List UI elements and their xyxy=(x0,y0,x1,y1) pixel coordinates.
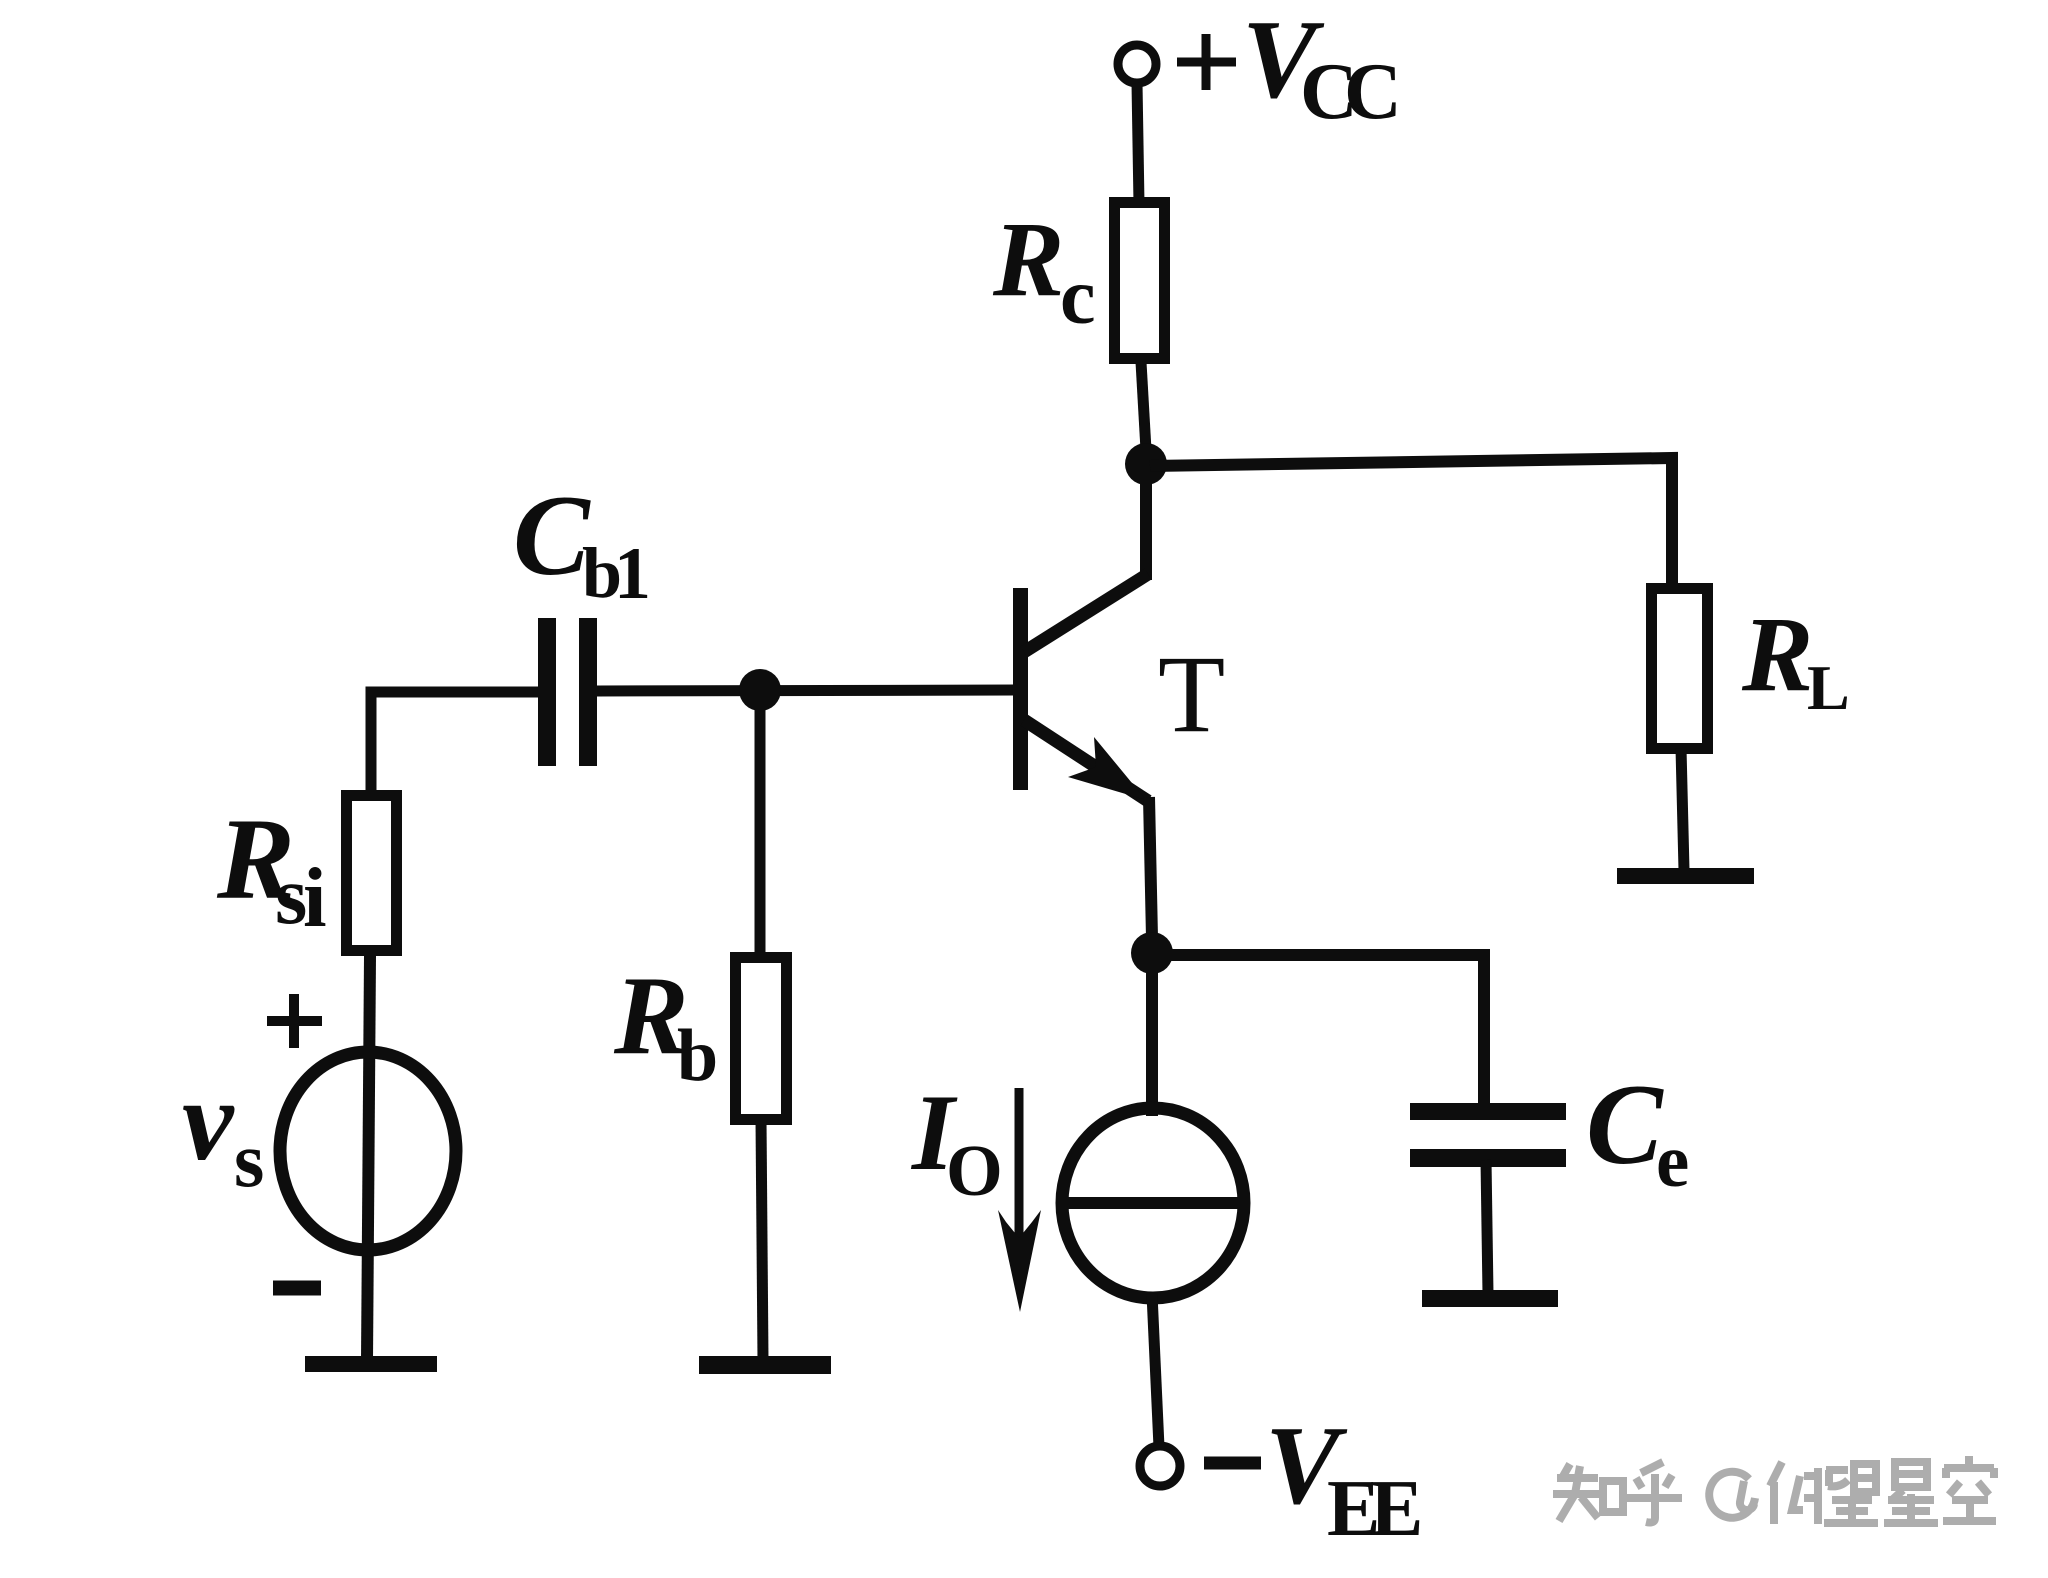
wire Ce to ground xyxy=(1486,1160,1488,1294)
svg-text:i: i xyxy=(303,851,327,945)
ground Ce xyxy=(1422,1290,1558,1307)
wire Rb to ground xyxy=(761,1119,763,1360)
arrow IO xyxy=(998,1088,1041,1312)
wire Rc to collector node xyxy=(1141,362,1146,450)
wire Cb1 to Rsi xyxy=(371,692,556,796)
ground RL xyxy=(1617,868,1754,884)
ground Rb xyxy=(699,1356,831,1374)
svg-text:E: E xyxy=(1370,1465,1423,1553)
wire VCC to Rc xyxy=(1137,83,1139,204)
svg-text:O: O xyxy=(946,1130,1003,1211)
minus sign vs xyxy=(273,1281,321,1296)
svg-text:C: C xyxy=(1344,48,1402,136)
svg-text:C: C xyxy=(1586,1061,1664,1188)
node base junction xyxy=(739,669,781,711)
svg-text:e: e xyxy=(1656,1120,1689,1203)
label Rsi xyxy=(216,795,327,945)
node emitter junction xyxy=(1131,932,1173,974)
node collector junction xyxy=(1125,443,1167,485)
wire current source to -VEE xyxy=(1152,1294,1159,1447)
resistor Rc xyxy=(1115,203,1165,359)
watermark xyxy=(1553,1456,1996,1524)
resistor Rsi xyxy=(347,796,397,951)
label vs xyxy=(182,1057,264,1203)
svg-text:c: c xyxy=(1060,253,1096,341)
label Rc xyxy=(992,201,1096,341)
wire Rsi to vs to ground xyxy=(367,956,370,1360)
label IO xyxy=(910,1072,1003,1211)
capacitor Ce xyxy=(1410,1103,1566,1167)
terminal +VCC xyxy=(1118,45,1156,83)
wire collector node down to transistor xyxy=(1140,478,1152,580)
wire emitter down xyxy=(1149,797,1152,938)
wire base node to Rb xyxy=(755,700,766,958)
transistor T xyxy=(1013,574,1148,801)
label +VCC xyxy=(1177,0,1402,136)
wire emitter node to current source xyxy=(1146,966,1158,1116)
terminal -VEE xyxy=(1140,1446,1180,1486)
svg-text:R: R xyxy=(1741,596,1813,714)
resistor RL xyxy=(1652,589,1708,749)
source vs xyxy=(280,1052,456,1250)
label RL xyxy=(1741,596,1850,723)
capacitor Cb1 xyxy=(538,618,597,766)
wire base xyxy=(597,690,1026,691)
current source IO xyxy=(1062,1108,1244,1298)
svg-text:b: b xyxy=(677,1015,718,1097)
label Ce xyxy=(1586,1061,1689,1203)
svg-text:R: R xyxy=(992,201,1064,319)
label Cb1 xyxy=(513,472,651,615)
wire RL to ground xyxy=(1681,748,1684,870)
wire emitter node to Ce xyxy=(1156,955,1484,1107)
svg-text:s: s xyxy=(234,1116,264,1203)
wire collector node to RL xyxy=(1150,458,1672,590)
label -VEE xyxy=(1204,1404,1423,1553)
plus sign vs xyxy=(267,994,322,1048)
svg-text:C: C xyxy=(513,472,591,599)
ground vs xyxy=(305,1356,437,1372)
svg-text:v: v xyxy=(182,1057,235,1185)
svg-text:T: T xyxy=(1158,633,1225,755)
label Rb xyxy=(613,954,718,1097)
svg-text:1: 1 xyxy=(614,533,651,615)
svg-text:L: L xyxy=(1807,652,1850,723)
resistor Rb xyxy=(736,958,787,1120)
